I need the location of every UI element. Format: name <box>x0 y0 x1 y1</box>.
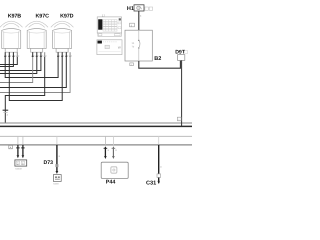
horn H1 <box>134 5 144 11</box>
wire K97B pin4 to left edge <box>0 57 17 65</box>
svg-text:C039: C039 <box>53 182 59 185</box>
connector table X2 <box>97 40 122 55</box>
wire K97C pin1 to left edge <box>0 57 33 83</box>
bus wire 4 <box>0 144 192 146</box>
svg-text:D9T: D9T <box>175 50 186 56</box>
svg-text:17: 17 <box>102 13 106 17</box>
svg-text:B2: B2 <box>154 56 161 62</box>
connector D9T <box>178 55 185 61</box>
D9T connector marks <box>185 51 188 54</box>
wire D9T to bus <box>181 60 183 126</box>
connector block bottom-left <box>15 160 27 166</box>
connector A label <box>9 145 13 149</box>
wire K97B pin1 to K97D pin1 <box>5 57 58 78</box>
pin stubs K97D <box>58 52 70 57</box>
svg-text:K97D: K97D <box>60 14 74 20</box>
wire B2 to D9T <box>139 60 181 68</box>
wire K97D pin3 to left edge <box>0 57 66 88</box>
wire K97C pin4 down to bus <box>5 57 44 123</box>
svg-text:D73: D73 <box>44 160 54 166</box>
pin stubs K97B <box>5 52 17 57</box>
device P44 wire 1 <box>104 136 108 159</box>
wire to connector pair left <box>16 136 20 158</box>
junction D73 block <box>53 175 61 182</box>
svg-text:K97B: K97B <box>8 14 22 20</box>
svg-text:K97C: K97C <box>36 14 50 20</box>
ground C31 wire <box>157 136 161 184</box>
pin box B2 bottom <box>130 63 134 66</box>
svg-text:C040A: C040A <box>15 167 22 170</box>
bus wire 1 <box>0 122 192 124</box>
svg-text:A: A <box>10 146 12 149</box>
wire K97B pin3 to left edge <box>0 57 13 67</box>
solenoid K97D <box>51 21 74 52</box>
device P44 wire 2 <box>112 136 116 159</box>
wire to connector pair right <box>21 136 25 158</box>
pin stubs K97C <box>33 52 45 57</box>
H1 connector marks <box>145 7 153 10</box>
pin box B2 top <box>130 23 135 27</box>
wire K97B pin2 to K97D pin2 <box>9 57 62 101</box>
wire K97C pin3 to left edge <box>0 57 41 71</box>
connector table X1 <box>97 17 121 37</box>
pin connector ticks <box>4 55 67 57</box>
svg-text:W: W <box>118 45 121 49</box>
inline connector on left drop wire <box>3 109 9 111</box>
solenoid K97B <box>0 21 23 52</box>
device B2 <box>125 30 152 61</box>
wire K97C pin2 to left edge <box>0 57 37 74</box>
svg-text:P44: P44 <box>106 180 116 186</box>
bus wire 3 <box>0 135 192 137</box>
device P44 <box>101 162 128 178</box>
junction D73 wire <box>55 136 58 174</box>
solenoid K97C <box>25 21 48 52</box>
svg-text:H1: H1 <box>127 6 134 12</box>
wire K97D pin4 to left edge <box>0 57 70 93</box>
svg-text:C31: C31 <box>146 180 156 186</box>
wire H1 to B2 <box>138 11 140 30</box>
bus wire 2 <box>0 125 192 127</box>
pin number marks <box>6 55 73 58</box>
pin box D9T wire <box>177 117 181 121</box>
